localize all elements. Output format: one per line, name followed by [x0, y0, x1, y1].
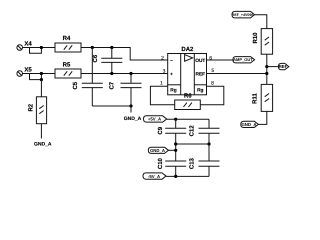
svg-text:Rg: Rg: [170, 88, 176, 94]
resistor R11: [252, 84, 273, 111]
svg-text:C9: C9: [157, 126, 164, 134]
wire -5V rail: [166, 175, 209, 177]
svg-text:C5: C5: [72, 81, 79, 89]
power flag -5V_A: [143, 173, 166, 179]
wire R10 to R11: [266, 54, 268, 84]
svg-text:REF: REF: [195, 72, 205, 78]
svg-text:8: 8: [211, 81, 214, 87]
wire pin 5 to divider: [207, 73, 267, 75]
wire loop below X4: [30, 48, 42, 54]
svg-text:2: 2: [161, 56, 164, 62]
ground flag GND_A right: [241, 121, 258, 127]
wire C12 to C13: [208, 133, 210, 161]
svg-text:X5: X5: [24, 67, 32, 74]
port flag REF: [278, 63, 288, 69]
junction on X5 wire: [40, 72, 43, 75]
wire pin 8 to R6: [200, 86, 224, 105]
svg-text:GND_A: GND_A: [150, 148, 165, 153]
svg-text:+: +: [170, 73, 173, 78]
svg-text:C13: C13: [189, 157, 196, 169]
wire R2 to ground: [40, 124, 42, 139]
wire X5 to R5: [23, 73, 56, 75]
junction ground rail: [129, 104, 132, 107]
junction gnd link left: [174, 142, 177, 145]
port flag REF_+4V096: [232, 11, 255, 18]
wire gnd flag stub: [169, 149, 176, 151]
wire +5V rail: [167, 118, 209, 120]
resistor R5: [55, 62, 81, 79]
capacitor C12: [189, 119, 220, 136]
ground net GND_A stub: [124, 106, 142, 122]
junction REF tap: [265, 65, 268, 68]
svg-text:R2: R2: [28, 103, 35, 111]
power flag +5V_A: [144, 116, 167, 122]
wire pin 1 to R6: [150, 86, 174, 105]
svg-text:R6: R6: [184, 93, 192, 100]
svg-text:GND_A: GND_A: [241, 122, 256, 127]
svg-text:AMP_OUT: AMP_OUT: [233, 57, 253, 62]
wire gnd link: [176, 143, 209, 145]
svg-text:R4: R4: [63, 35, 71, 42]
junction C10 bottom: [174, 175, 177, 178]
wire R11 to GND flag: [258, 111, 267, 124]
junction pin5 wire: [265, 72, 268, 75]
junction C9 tap: [174, 118, 177, 121]
resistor R4: [55, 35, 81, 52]
svg-text:C10: C10: [157, 157, 164, 169]
svg-text:C6: C6: [92, 54, 99, 62]
svg-text:R5: R5: [63, 62, 71, 69]
wire C9 to C10: [175, 133, 177, 161]
svg-text:5: 5: [211, 68, 214, 74]
junction C5 tap: [91, 46, 94, 49]
port flag AMP_OUT: [233, 57, 255, 63]
capacitor C5: [72, 48, 103, 107]
wire pin 6 out: [207, 59, 233, 61]
resistor R10: [252, 29, 273, 55]
svg-text:X4: X4: [24, 41, 32, 48]
svg-text:R11: R11: [252, 93, 259, 104]
svg-text:GND_A: GND_A: [124, 116, 142, 122]
wire R5 node to op-amp pin 3: [81, 73, 168, 75]
junction C6 tap: [110, 46, 113, 49]
wire stub to REF flag: [267, 66, 279, 68]
resistor R6: [175, 93, 201, 110]
terminal X4: [17, 41, 32, 51]
junction C6 bottom: [110, 72, 113, 75]
svg-text:Rg: Rg: [197, 88, 203, 94]
svg-text:OUT: OUT: [195, 58, 205, 64]
op-amp U DA2: [168, 46, 207, 95]
svg-text:1: 1: [160, 81, 163, 87]
svg-text:C7: C7: [109, 81, 116, 89]
capacitor C10: [157, 157, 186, 176]
svg-text:GND_A: GND_A: [34, 142, 52, 148]
junction at loop bottom: [40, 78, 43, 81]
capacitor C6: [92, 48, 122, 74]
wire X4 to R4: [23, 47, 56, 49]
junction gnd stub: [174, 149, 177, 152]
svg-text:REF: REF: [279, 64, 288, 69]
ground flag GND_A mid: [148, 147, 168, 153]
wire ground rail C5 C7: [92, 105, 131, 107]
terminal X5: [17, 67, 32, 77]
resistor R2: [28, 97, 47, 124]
svg-text:DA2: DA2: [181, 46, 194, 53]
capacitor C7: [109, 74, 142, 107]
wire down to R2: [40, 80, 42, 97]
svg-text:6: 6: [209, 56, 212, 62]
junction C7 tap: [129, 72, 132, 75]
svg-text:C12: C12: [189, 125, 196, 137]
wire R4 node to op-amp pin 2: [81, 48, 168, 61]
wire loop below X5: [30, 74, 42, 80]
capacitor C13: [189, 157, 220, 176]
junction on X4 wire: [40, 46, 43, 49]
capacitor C9: [157, 119, 186, 134]
junction gnd link right: [207, 142, 210, 145]
svg-text:R10: R10: [252, 32, 259, 44]
svg-text:+5V_A: +5V_A: [148, 117, 161, 122]
svg-text:-5V_A: -5V_A: [148, 174, 160, 179]
svg-text:REF_+4V096: REF_+4V096: [232, 13, 254, 17]
wire flag to R10: [255, 15, 267, 29]
svg-text:−: −: [170, 59, 173, 64]
svg-text:3: 3: [163, 69, 166, 75]
